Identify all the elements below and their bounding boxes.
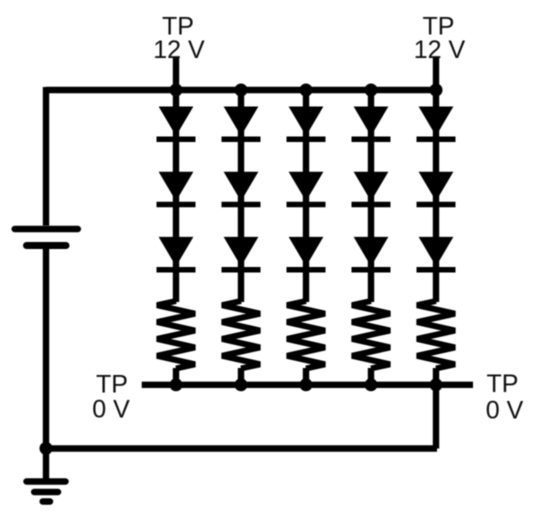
svg-text:TP: TP — [487, 370, 519, 398]
svg-text:TP: TP — [96, 371, 128, 399]
svg-text:12 V: 12 V — [153, 36, 205, 64]
svg-text:0 V: 0 V — [486, 397, 524, 425]
svg-text:0 V: 0 V — [92, 396, 130, 424]
svg-text:12 V: 12 V — [414, 36, 466, 64]
